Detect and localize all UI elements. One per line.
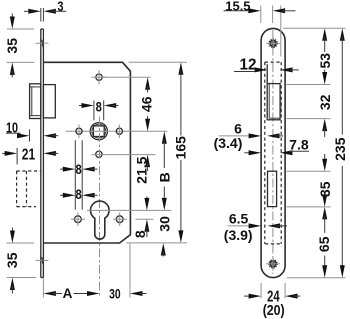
unlabeled segment arrows: [322, 119, 327, 172]
hole below spindle: [92, 151, 156, 157]
svg-text:3: 3: [58, 0, 64, 14]
dim 21.5: [134, 155, 151, 184]
dim 8 spindle square: [79, 99, 119, 115]
svg-text:6.5: 6.5: [229, 211, 249, 227]
case bottom extension line: [126, 242, 187, 244]
cylinder row centerline: [87, 209, 171, 211]
left view: lock case side elevation: [2, 0, 188, 302]
left hole column extension lines: [75, 140, 82, 209]
cylinder fixing hole right: [113, 213, 153, 227]
dim 12 latch cutout width: [234, 57, 299, 74]
dim 35 bottom: [4, 228, 36, 294]
svg-text:32: 32: [317, 94, 333, 110]
dim A backset: [43, 286, 99, 301]
svg-text:30: 30: [156, 216, 172, 232]
dim 235: [332, 28, 348, 278]
lock case outline: [43, 62, 130, 243]
svg-text:(3.9): (3.9): [224, 227, 253, 243]
dim 6.5 (3.9): [224, 211, 287, 243]
svg-text:35: 35: [4, 252, 20, 268]
dim 65: [316, 207, 332, 278]
svg-text:10: 10: [6, 121, 18, 137]
svg-text:8: 8: [76, 161, 82, 177]
spindle row centerline: [66, 130, 168, 132]
dim 6 (3.4): [214, 121, 284, 152]
case top extension line: [129, 61, 187, 63]
svg-text:7.8: 7.8: [289, 136, 309, 152]
svg-text:8: 8: [96, 99, 102, 115]
handle screw hole right: [116, 125, 122, 139]
spindle hub: [90, 123, 107, 140]
svg-text:30: 30: [109, 286, 121, 302]
faceplate break mark upper: [36, 40, 49, 48]
top extension ticks for 15.5: [261, 6, 281, 57]
dim 165: [173, 62, 189, 243]
hidden lock case dashed lines: [265, 62, 282, 244]
handle screw hole left: [76, 125, 82, 139]
svg-text:53: 53: [317, 53, 333, 69]
latch bolt head: [30, 84, 41, 119]
dim 46: [139, 77, 155, 131]
dim 15.5: [224, 0, 296, 13]
dim 3 faceplate thickness: [24, 0, 66, 22]
dim 32: [317, 94, 333, 110]
top screw: [266, 37, 280, 51]
latch cutout with latch bolt: [267, 64, 282, 120]
dim 21 follower box to faceplate: [2, 147, 58, 165]
svg-text:8: 8: [132, 230, 148, 238]
svg-text:235: 235: [332, 137, 348, 161]
dim 30 horizontal: [109, 286, 146, 302]
right side extension lines: [283, 28, 346, 278]
extension line top hole to 46 dim: [103, 76, 151, 78]
dim B: [157, 131, 173, 210]
svg-text:165: 165: [173, 136, 189, 160]
cylinder slot cutout: [268, 171, 277, 206]
svg-text:21: 21: [22, 147, 35, 164]
spindle square extension lines: [94, 101, 104, 121]
svg-text:15.5: 15.5: [225, 0, 250, 13]
svg-text:35: 35: [4, 38, 20, 54]
latch bolt tail: [43, 85, 55, 118]
faceplate outline rounded ends: [261, 28, 285, 277]
bottom screw: [266, 257, 280, 271]
faceplate strip: [41, 29, 44, 278]
svg-text:8: 8: [76, 186, 82, 202]
svg-text:46: 46: [139, 96, 155, 112]
svg-text:(20): (20): [263, 303, 285, 319]
right view: faceplate front elevation: [214, 0, 348, 319]
faceplate break mark lower: [36, 257, 49, 265]
dim 7.8: [244, 136, 309, 155]
dim 8 upper left column: [60, 161, 98, 177]
dim 8 cylinder to hole: [132, 197, 149, 239]
svg-text:(3.4): (3.4): [214, 135, 243, 151]
dim 30 vertical: [156, 216, 172, 257]
svg-text:65: 65: [316, 236, 332, 252]
svg-text:B: B: [157, 172, 173, 182]
dim 53: [317, 28, 333, 84]
extension verticals below case: [43, 244, 130, 298]
vertical centerline of lock: [99, 117, 101, 298]
dim 24: [244, 289, 300, 306]
dashed follower recess box: [17, 171, 41, 207]
plate centerline: [272, 30, 274, 274]
svg-text:A: A: [63, 286, 73, 301]
euro profile cylinder hole: [91, 201, 110, 239]
dim 35: [317, 181, 333, 207]
bottom extension verticals: [261, 283, 285, 298]
dim 10 latch projection: [6, 121, 58, 142]
top screw hole: [92, 70, 107, 85]
dim 8 lower left column: [60, 186, 98, 202]
dim 35 top: [4, 14, 34, 78]
cylinder fixing hole left: [71, 213, 85, 227]
